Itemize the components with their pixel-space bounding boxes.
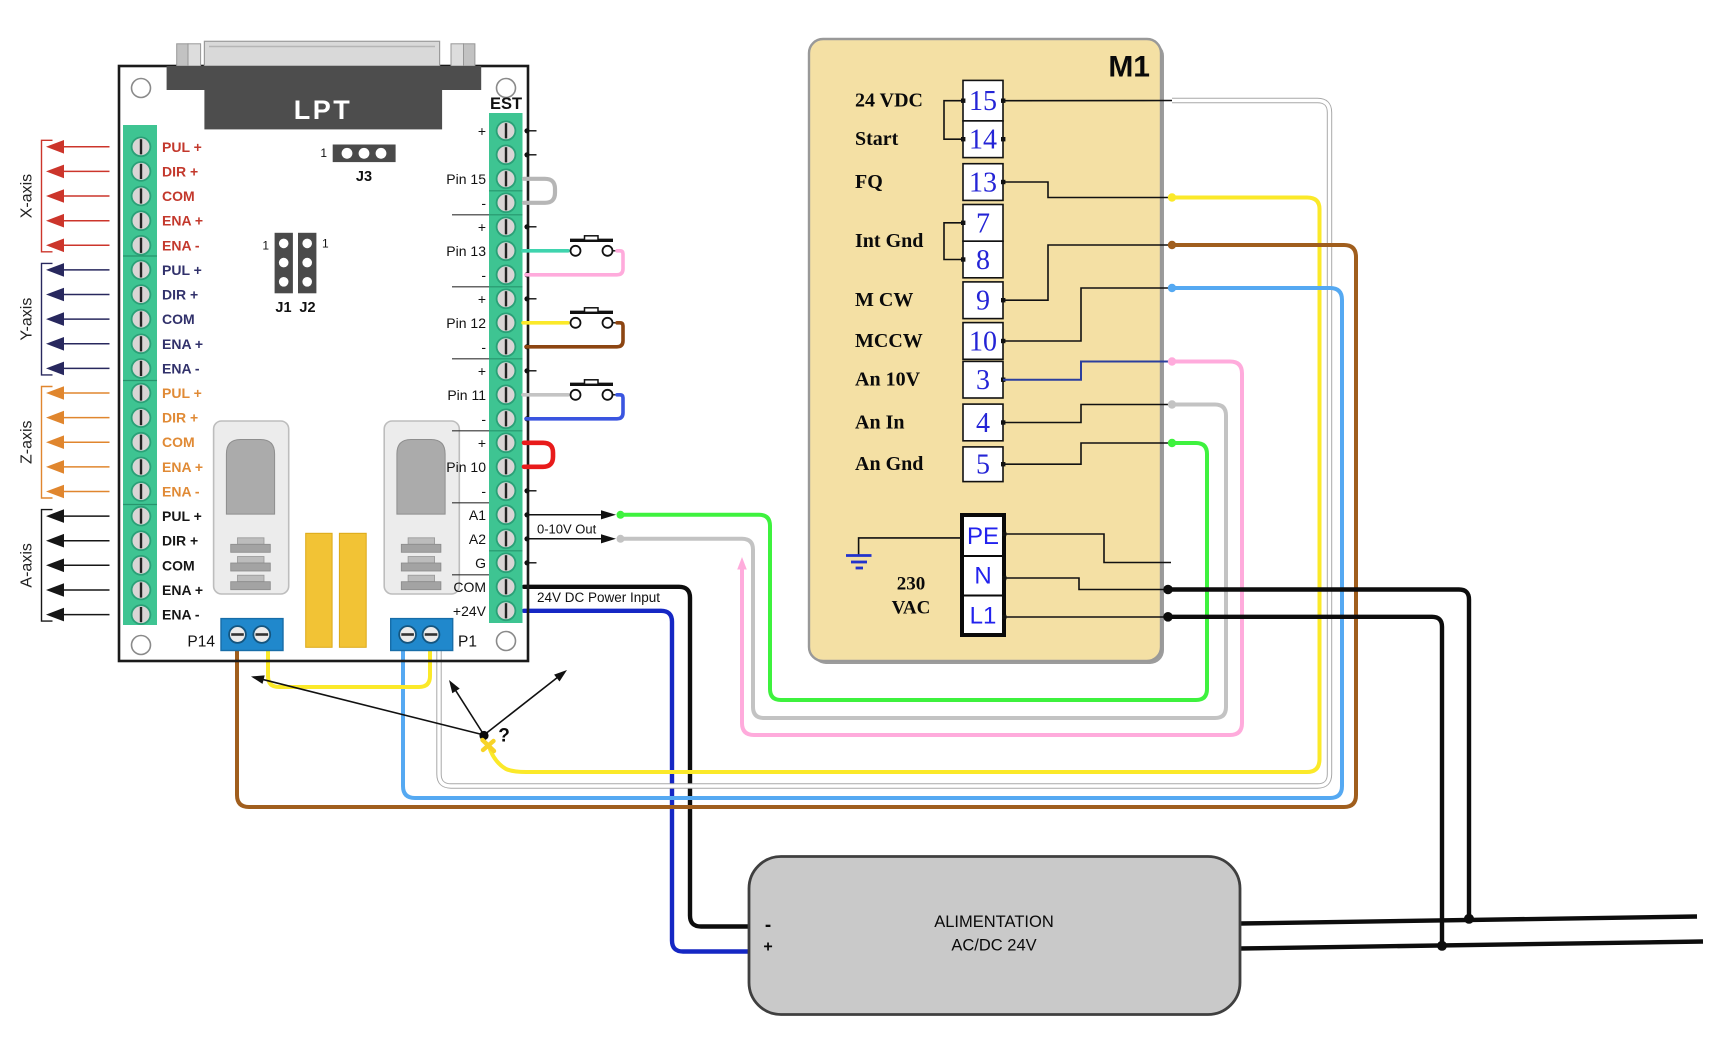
Z-axis DIR+ label & arrow bbox=[46, 410, 198, 426]
M1 wire pin 13 out (FQ) bbox=[1003, 182, 1172, 198]
EST node stub row 1 bbox=[524, 128, 536, 133]
svg-text:A1: A1 bbox=[469, 507, 486, 523]
button S1 (Pin 13) return wire bbox=[526, 251, 623, 275]
svg-text:+: + bbox=[763, 939, 772, 956]
wire yellow link P14 to P1 bbox=[268, 650, 430, 687]
svg-text:COM: COM bbox=[162, 188, 195, 204]
svg-text:5: 5 bbox=[976, 450, 990, 481]
svg-text:DIR +: DIR + bbox=[162, 163, 198, 179]
Y-axis PUL+ label & arrow bbox=[46, 262, 202, 278]
svg-text:Pin 11: Pin 11 bbox=[447, 387, 486, 403]
Y-axis ENA+ label & arrow bbox=[46, 336, 203, 352]
Y-axis bracket bbox=[42, 263, 53, 375]
M1 wire pin 9 out (M CW) bbox=[1003, 245, 1172, 300]
DB25 connector body bar bbox=[167, 66, 482, 90]
PSU output wire lower (to L1) bbox=[1240, 942, 1703, 949]
svg-text:Pin 10: Pin 10 bbox=[446, 459, 486, 475]
Y-axis COM label & arrow bbox=[46, 311, 195, 327]
relay K1 bbox=[214, 421, 289, 594]
jumper wire Pin 15 to - (gray loop) bbox=[524, 179, 555, 203]
M1 terminal 14 bbox=[963, 121, 1003, 158]
button S2 (Pin 12) push button bbox=[570, 308, 620, 328]
jumper wire + to Pin 10 (red loop) bbox=[524, 443, 553, 467]
A-axis COM label & arrow bbox=[46, 557, 195, 573]
mounting hole bottom-left bbox=[132, 636, 151, 655]
svg-text:P1: P1 bbox=[458, 634, 477, 651]
wire pink: M1 pin 3 (An 10V), open end w/ arrow bbox=[742, 362, 1242, 736]
EST terminal strip bbox=[489, 113, 523, 623]
svg-text:L1: L1 bbox=[970, 603, 997, 630]
Z-axis COM label & arrow bbox=[46, 434, 195, 450]
M1 wire pin 3 out (An 10V, navy) bbox=[1003, 362, 1172, 380]
M1 terminal connection dots bbox=[961, 99, 1005, 467]
svg-text:-: - bbox=[765, 915, 771, 936]
A-axis bracket bbox=[42, 510, 53, 621]
button S3 (Pin 11) return wire bbox=[526, 395, 623, 419]
svg-text:1: 1 bbox=[320, 146, 327, 160]
Y-axis DIR+ label & arrow bbox=[46, 287, 198, 303]
annotation node dot bbox=[479, 731, 488, 740]
M1 exit node brown/MCW bbox=[1168, 241, 1176, 249]
M1 exit node gray/AnIn bbox=[1168, 400, 1176, 408]
M1 exit node pink/An10V bbox=[1168, 357, 1176, 365]
relay K2 bbox=[384, 421, 459, 594]
EST node stub row 16 bbox=[524, 488, 536, 493]
M1 exit node yellow/FQ bbox=[1168, 193, 1176, 201]
M1 link 7-8 Int Gnd (left bracket) bbox=[944, 223, 963, 260]
terminal block P14 bbox=[221, 619, 283, 651]
svg-text:A-axis: A-axis bbox=[19, 543, 36, 587]
PSU output wire upper (to N) bbox=[1240, 917, 1697, 924]
svg-text:24V DC Power Input: 24V DC Power Input bbox=[537, 590, 660, 605]
svg-text:-: - bbox=[481, 267, 486, 283]
M1 terminal 13 bbox=[963, 164, 1003, 201]
svg-text:Z-axis: Z-axis bbox=[19, 420, 36, 464]
M1 wire PE right (open stub) bbox=[1005, 534, 1171, 563]
svg-text:N: N bbox=[974, 563, 991, 590]
label 230 VAC bbox=[892, 574, 931, 619]
wire N: M1 to junction bbox=[1168, 590, 1469, 920]
LPT connector housing bbox=[204, 90, 442, 129]
svg-text:LPT: LPT bbox=[294, 95, 353, 125]
svg-text:7: 7 bbox=[976, 208, 990, 239]
svg-text:M CW: M CW bbox=[855, 289, 913, 311]
svg-text:+24V: +24V bbox=[453, 603, 487, 619]
Z-axis PUL+ label & arrow bbox=[46, 385, 202, 401]
svg-text:COM: COM bbox=[162, 557, 195, 573]
M1 terminal block PE/N/L1 bbox=[962, 515, 1006, 635]
EST node stub row 5 bbox=[524, 224, 536, 229]
node L1 (black dot) bbox=[1163, 612, 1173, 622]
button S3 (Pin 11) push button bbox=[570, 380, 620, 400]
svg-text:1: 1 bbox=[262, 239, 269, 253]
EST node stub row 8 bbox=[524, 296, 536, 301]
svg-text:PUL +: PUL + bbox=[162, 262, 202, 278]
Z-axis ENA- label & arrow bbox=[46, 484, 200, 500]
svg-text:J1: J1 bbox=[275, 300, 291, 316]
DB25 connector metal shell bbox=[177, 41, 475, 66]
A-axis DIR+ label & arrow bbox=[46, 533, 198, 549]
power supply ALIMENTATION AC/DC 24V bbox=[749, 857, 1240, 1015]
svg-text:COM: COM bbox=[162, 434, 195, 450]
wire +24V to PSU plus (dark blue) bbox=[524, 611, 750, 952]
button S1 (Pin 13) lead wire bbox=[523, 249, 568, 253]
M1 exit node green/AnGnd bbox=[1168, 439, 1176, 447]
M1 terminal 4 bbox=[963, 404, 1003, 441]
svg-text:An In: An In bbox=[855, 412, 904, 434]
wire brown: P14 to M1 pin 9 (M CW) bbox=[237, 245, 1356, 807]
EST node stub row 19 bbox=[524, 560, 536, 565]
EST node dot row 18 bbox=[524, 536, 529, 541]
M1 exit node lightblue/MCCW bbox=[1168, 284, 1176, 292]
M1 terminal 7 bbox=[963, 205, 1003, 242]
svg-text:9: 9 bbox=[976, 286, 990, 317]
svg-text:Y-axis: Y-axis bbox=[19, 298, 36, 341]
svg-text:ENA +: ENA + bbox=[162, 459, 203, 475]
junction node L1/lower bbox=[1437, 941, 1447, 951]
svg-text:MCCW: MCCW bbox=[855, 330, 923, 352]
M1 terminal 8 bbox=[963, 241, 1003, 278]
svg-text:3: 3 bbox=[976, 365, 990, 396]
X-axis DIR+ label & arrow bbox=[46, 163, 198, 179]
svg-text:G: G bbox=[475, 555, 486, 571]
breakout board PCB base bbox=[119, 66, 528, 661]
button S3 (Pin 11) lead wire bbox=[523, 393, 568, 397]
svg-text:ENA -: ENA - bbox=[162, 484, 200, 500]
ground symbol (earth) bbox=[846, 556, 872, 569]
svg-text:-: - bbox=[481, 411, 486, 427]
M1 terminal 10 bbox=[963, 323, 1003, 360]
EST node dot row 7 bbox=[524, 272, 529, 277]
svg-text:?: ? bbox=[498, 726, 510, 747]
svg-text:ENA +: ENA + bbox=[162, 213, 203, 229]
wire yellow: ? point to M1 pin 13 (FQ) bbox=[489, 198, 1320, 773]
mounting hole bottom-right bbox=[497, 632, 516, 651]
svg-text:+: + bbox=[478, 219, 486, 235]
svg-text:VAC: VAC bbox=[892, 598, 931, 619]
jumper J2 bbox=[298, 233, 329, 293]
M1 wire N out bbox=[1005, 578, 1167, 590]
X-axis ENA- label & arrow bbox=[46, 237, 200, 253]
breakout board outline bbox=[119, 66, 528, 661]
svg-text:J3: J3 bbox=[356, 169, 372, 185]
svg-text:8: 8 bbox=[976, 245, 990, 276]
X-axis PUL+ label & arrow bbox=[46, 139, 202, 155]
jumper J3 bbox=[320, 145, 395, 163]
svg-text:1: 1 bbox=[322, 236, 329, 250]
A-axis ENA+ label & arrow bbox=[46, 582, 203, 598]
svg-text:DIR +: DIR + bbox=[162, 410, 198, 426]
M1 terminal 15 bbox=[963, 80, 1003, 121]
EST node stub row 11 bbox=[524, 368, 536, 373]
svg-text:10: 10 bbox=[969, 327, 997, 358]
node N (black dot) bbox=[1163, 585, 1173, 595]
button S2 (Pin 12) lead wire bbox=[523, 321, 568, 325]
svg-text:COM: COM bbox=[453, 579, 486, 595]
M1 wire PE to ground bbox=[859, 538, 961, 555]
svg-text:PUL +: PUL + bbox=[162, 385, 202, 401]
Z-axis ENA+ label & arrow bbox=[46, 459, 203, 475]
svg-text:-: - bbox=[481, 195, 486, 211]
wire L1: M1 to junction bbox=[1168, 617, 1442, 946]
M1 wire pin 4 out (An In) bbox=[1003, 405, 1172, 423]
svg-text:24 VDC: 24 VDC bbox=[855, 90, 923, 112]
svg-text:-: - bbox=[481, 339, 486, 355]
svg-text:AC/DC 24V: AC/DC 24V bbox=[951, 937, 1036, 955]
EST node stub row 2 bbox=[524, 152, 536, 157]
M1 link 15-14 (left bracket) bbox=[944, 101, 963, 140]
EST node dot row 13 bbox=[524, 416, 529, 421]
svg-text:Pin 15: Pin 15 bbox=[446, 171, 486, 187]
svg-text:J2: J2 bbox=[299, 300, 315, 316]
svg-text:Start: Start bbox=[855, 128, 899, 150]
A-axis ENA- label & arrow bbox=[46, 607, 200, 623]
capacitor C1 bbox=[306, 533, 332, 647]
svg-text:PUL +: PUL + bbox=[162, 139, 202, 155]
yellow highlight mark bbox=[483, 740, 495, 751]
svg-text:COM: COM bbox=[162, 311, 195, 327]
wire green: A1 (0-10V Out) to M1 pin 5 (An Gnd) bbox=[621, 443, 1207, 700]
M1 terminal 5 bbox=[963, 447, 1003, 482]
wire white: P1 area to M1 pin 15 (24 VDC) bbox=[439, 101, 1330, 787]
wire COM to PSU minus (black) bbox=[524, 587, 750, 927]
svg-text:+: + bbox=[478, 291, 486, 307]
M1 terminal 9 bbox=[963, 282, 1003, 319]
junction node N/upper bbox=[1464, 914, 1474, 924]
svg-text:Pin 12: Pin 12 bbox=[446, 315, 486, 331]
svg-text:An Gnd: An Gnd bbox=[855, 453, 923, 475]
A-axis PUL+ label & arrow bbox=[46, 508, 202, 524]
svg-text:DIR +: DIR + bbox=[162, 533, 198, 549]
X-axis bracket bbox=[42, 140, 53, 252]
svg-text:ENA -: ENA - bbox=[162, 360, 200, 376]
annotation arrow to P1 wires bbox=[449, 680, 484, 735]
svg-text:ENA +: ENA + bbox=[162, 336, 203, 352]
EST node dot row 10 bbox=[524, 344, 529, 349]
svg-text:An 10V: An 10V bbox=[855, 369, 921, 391]
EST node dot row 17 bbox=[524, 512, 529, 517]
svg-text:ALIMENTATION: ALIMENTATION bbox=[934, 913, 1053, 931]
mounting hole top-left bbox=[132, 79, 151, 98]
button S2 (Pin 12) return wire bbox=[526, 323, 623, 347]
svg-text:4: 4 bbox=[976, 408, 990, 439]
mounting hole top-right bbox=[497, 79, 516, 98]
svg-text:230: 230 bbox=[897, 574, 926, 595]
capacitor C2 bbox=[339, 533, 366, 647]
wire A1 output (black w/ arrow) bbox=[529, 510, 625, 519]
svg-text:+: + bbox=[478, 363, 486, 379]
left axis terminal strip bbox=[123, 125, 157, 625]
button S1 (Pin 13) push button bbox=[570, 236, 620, 256]
M1 wire pin 5 out (An Gnd) bbox=[1003, 443, 1172, 464]
svg-text:DIR +: DIR + bbox=[162, 287, 198, 303]
svg-text:Int Gnd: Int Gnd bbox=[855, 230, 923, 252]
svg-text:Pin 13: Pin 13 bbox=[446, 243, 486, 259]
svg-text:ENA -: ENA - bbox=[162, 237, 200, 253]
svg-text:ENA +: ENA + bbox=[162, 582, 203, 598]
annotation arrow up-right bbox=[484, 670, 567, 735]
svg-text:PUL +: PUL + bbox=[162, 508, 202, 524]
svg-text:X-axis: X-axis bbox=[19, 174, 36, 218]
svg-text:A2: A2 bbox=[469, 531, 486, 547]
X-axis COM label & arrow bbox=[46, 188, 195, 204]
svg-text:FQ: FQ bbox=[855, 171, 883, 193]
svg-text:14: 14 bbox=[969, 125, 997, 156]
wire light blue: P1 to M1 pin 10 (MCCW) bbox=[403, 288, 1342, 798]
svg-text:0-10V Out: 0-10V Out bbox=[537, 522, 597, 537]
svg-text:P14: P14 bbox=[187, 634, 215, 651]
M1 terminal 3 bbox=[963, 361, 1003, 398]
terminal block P1 bbox=[391, 619, 453, 651]
jumper J1 bbox=[262, 233, 293, 293]
X-axis ENA+ label & arrow bbox=[46, 213, 203, 229]
M1 wire pin 15 out bbox=[1003, 100, 1172, 102]
wire gray: A2 to M1 pin 4 (An In) bbox=[621, 405, 1226, 719]
M1 wire L1 out bbox=[1005, 616, 1167, 618]
EST group separator ticks bbox=[452, 215, 489, 575]
Y-axis ENA- label & arrow bbox=[46, 360, 200, 376]
wire A2 output (black w/ arrow) bbox=[529, 534, 625, 543]
pink wire arrowhead bbox=[737, 557, 747, 570]
svg-text:M1: M1 bbox=[1108, 51, 1150, 84]
svg-text:+: + bbox=[478, 435, 486, 451]
svg-text:ENA -: ENA - bbox=[162, 607, 200, 623]
svg-text:15: 15 bbox=[969, 86, 997, 117]
svg-text:13: 13 bbox=[969, 168, 997, 199]
svg-text:EST: EST bbox=[490, 95, 522, 113]
M1 wire pin 10 out (MCCW) bbox=[1003, 288, 1172, 341]
svg-text:-: - bbox=[481, 483, 486, 499]
Z-axis bracket bbox=[42, 387, 53, 499]
annotation arrow to P14 wires bbox=[251, 675, 484, 735]
svg-text:PE: PE bbox=[967, 523, 999, 550]
motor drive M1 box bbox=[809, 39, 1164, 664]
svg-text:+: + bbox=[478, 123, 486, 139]
